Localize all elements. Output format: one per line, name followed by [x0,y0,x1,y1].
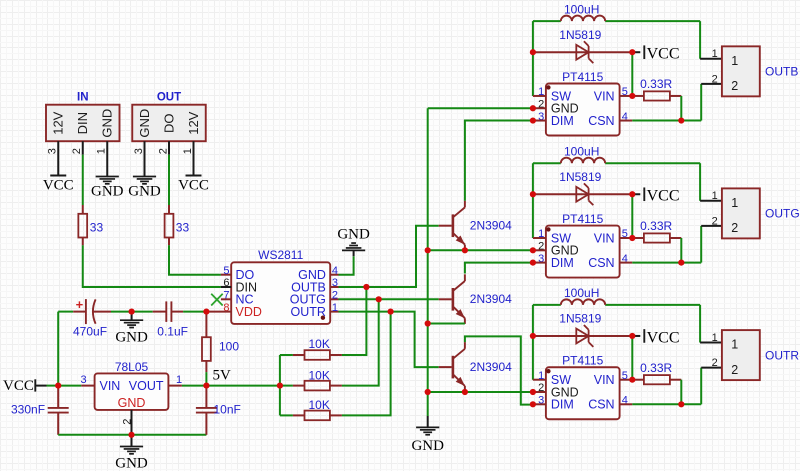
resistor 10K (bottom) [280,398,342,420]
driver U PT4115 (OUTB) [533,70,632,136]
node diode junctions (OUTG) [530,191,636,197]
svg-text:VCC: VCC [647,329,680,346]
svg-text:GND: GND [115,456,148,471]
svg-text:0.33R: 0.33R [640,361,672,375]
resistor 10K (top) [280,337,342,360]
wire diode to VIN (OUTB) [620,52,633,96]
wire 0.33R to CSN (OUTR) [632,380,701,405]
svg-text:7: 7 [223,290,229,302]
wire R33 to WS2811 DIN [83,245,221,287]
wire topwire to conn pin1 (OUTG) [700,163,722,201]
svg-text:1: 1 [96,148,108,154]
wire Q3 collector to PT4115-3 DIM [465,336,533,404]
connector OUTG [712,188,800,238]
svg-text:1: 1 [731,196,738,210]
wire VDD rail right segment [183,311,206,313]
wire CSN to conn pin2 (OUTB) [701,84,722,121]
wire OUT.DO to R 33 [168,155,170,205]
resistor 33 (data in) [78,205,103,245]
transistor Q2 2N3904 [439,274,512,324]
svg-text:10K: 10K [309,368,330,382]
svg-text:6: 6 [223,277,229,289]
resistor 100 [202,312,239,386]
svg-text:2: 2 [332,290,338,302]
svg-text:CSN: CSN [588,398,614,412]
svg-text:10K: 10K [309,398,330,412]
svg-text:DIM: DIM [551,256,574,270]
capacitor 10nF [196,386,241,435]
transistor Q1 2N3904 [439,201,512,251]
wire VDD rail mid segment [111,311,153,313]
svg-text:330nF: 330nF [11,402,45,416]
wire inductor left to SW (OUTG) [533,163,546,238]
node GND/DIM pin dots (OUTB) [530,105,536,124]
wire inductor left to SW (OUTR) [533,305,546,380]
svg-text:1: 1 [731,338,738,352]
resistor 0.33R (OUTR) [632,361,681,385]
VCC power flag (OUTG) [632,187,679,204]
svg-text:PT4115: PT4115 [562,354,603,368]
svg-text:VCC: VCC [3,378,34,394]
svg-text:1: 1 [182,148,194,154]
node GND/DIM pin dots (OUTR) [530,389,536,408]
pin 3 of IN + VCC power flag [43,141,74,193]
node 10K common junction [277,383,283,389]
svg-text:OUTR: OUTR [290,305,325,319]
ground (78L05) [115,435,148,471]
svg-text:0.1uF: 0.1uF [157,325,188,339]
svg-text:1: 1 [538,86,544,98]
resistor 10K (mid) [280,368,342,390]
svg-text:CSN: CSN [588,256,614,270]
node rail/Q3 junctions [425,389,468,395]
VCC net flag (left) [3,378,58,394]
op-amp U1 WS2811 [221,248,339,324]
svg-text:2: 2 [121,419,133,425]
svg-text:VCC: VCC [647,188,680,205]
svg-text:VDD: VDD [236,305,262,319]
svg-text:10nF: 10nF [214,402,241,416]
svg-text:1: 1 [712,332,718,344]
pin 1 of IN + ground [91,141,124,200]
wire 10K bottom to OUTR [342,312,391,416]
node CSN junction (OUTR) [678,401,684,407]
svg-text:GND: GND [411,438,444,454]
svg-text:2N3904: 2N3904 [470,219,512,233]
wire Q2 emitter rail [428,323,465,325]
svg-text:0.33R: 0.33R [640,219,672,233]
svg-text:2: 2 [712,215,718,227]
svg-text:1: 1 [176,374,182,386]
svg-text:VCC: VCC [647,46,680,63]
svg-text:2: 2 [71,148,83,154]
svg-text:GND: GND [128,184,161,200]
svg-text:VIN: VIN [594,89,615,103]
svg-text:5: 5 [622,86,628,98]
svg-text:DIM: DIM [551,114,574,128]
wire diode to VIN (OUTR) [620,336,633,380]
svg-text:100uH: 100uH [564,144,599,158]
svg-text:PT4115: PT4115 [562,212,603,226]
no-connect cross on WS2811 NC pin [211,294,223,306]
wire IN.DIN to R 33 [82,155,84,205]
wire inductor left to SW (OUTB) [533,21,546,96]
regulator U2 78L05 [80,360,182,435]
inductor 100uH (OUTG) [533,144,700,163]
svg-text:2: 2 [157,148,169,154]
node VIN junction (OUTR) [629,377,635,383]
svg-text:0.33R: 0.33R [640,77,672,91]
diode 1N5819 (OUTB) [533,28,632,63]
diode 1N5819 (OUTR) [533,312,632,347]
wire GND rail top to PT4115-1 GND [428,107,533,109]
wire VDD rail left segment [58,311,73,313]
svg-text:WS2811: WS2811 [258,248,303,262]
svg-text:4: 4 [332,265,338,277]
connector OUT (J2) [132,92,206,155]
pin 1 of OUT + VCC power flag [178,141,209,193]
node diode junctions (OUTR) [530,333,636,339]
svg-text:1: 1 [712,48,718,60]
wire topwire to conn pin1 (OUTR) [700,305,722,343]
connector IN (J1) [46,92,120,155]
svg-text:GND: GND [337,226,370,242]
svg-text:1: 1 [332,302,338,314]
svg-text:VCC: VCC [43,178,74,194]
node diode junctions (OUTB) [530,49,636,55]
wire 10K mid to OUTG [342,299,379,385]
node rail/Q1 junctions [425,247,468,253]
node 5V junction [203,383,209,389]
wire Q1 emitter rail [428,249,533,251]
wire 5V rail [206,385,280,387]
svg-text:3: 3 [80,374,86,386]
svg-text:3: 3 [47,148,59,154]
wire IN.DIN stub [82,141,84,155]
svg-text:VOUT: VOUT [129,379,164,393]
ground (mid rail) [115,312,148,346]
wire OUTG net [339,298,439,300]
wire 0.33R to CSN (OUTB) [632,96,701,121]
svg-text:DIN: DIN [75,112,90,134]
wire WS2811 VDD pin [206,311,231,313]
node OUTG junction [376,296,382,302]
node rail/Q2 junction [425,320,431,326]
svg-text:OUTG: OUTG [765,207,800,221]
svg-text:VIN: VIN [594,373,615,387]
transistor Q3 2N3904 [439,342,512,392]
node VIN junction (OUTG) [629,235,635,241]
svg-text:VIN: VIN [100,379,121,393]
node VDD junction [203,309,209,315]
resistor 33 (data out) [165,205,190,245]
capacitor 0.1uF [153,301,188,338]
wire 0.33R to CSN (OUTG) [632,238,701,263]
svg-text:5: 5 [622,228,628,240]
svg-text:VIN: VIN [594,231,615,245]
svg-text:GND: GND [91,184,124,200]
svg-text:1N5819: 1N5819 [559,312,601,326]
resistor 0.33R (OUTB) [632,77,681,100]
wire 10K common vertical [279,355,281,415]
svg-text:78L05: 78L05 [115,360,149,374]
node CSN junction (OUTG) [678,260,684,266]
svg-text:GND: GND [115,330,148,346]
svg-text:100uH: 100uH [564,286,599,300]
svg-text:100uH: 100uH [564,2,599,16]
svg-text:OUTR: OUTR [765,348,799,362]
wire Q3 emitter rail [428,391,533,393]
svg-text:OUT: OUT [157,92,181,104]
VCC power flag (OUTB) [632,45,679,62]
node CSN junction (OUTB) [678,117,684,123]
connector OUTB [712,46,799,96]
svg-text:100: 100 [219,340,239,354]
VCC power flag (OUTR) [632,329,679,346]
capacitor 470uF [73,297,111,339]
svg-text:GND: GND [118,396,146,410]
connector OUTR [712,330,800,380]
svg-text:470uF: 470uF [73,325,107,339]
node OUTB junction [363,284,369,290]
svg-text:DIM: DIM [551,398,574,412]
diode 1N5819 (OUTG) [533,170,632,205]
svg-text:2: 2 [731,221,738,235]
wire 78L05 VOUT to 5V [182,385,207,387]
svg-text:1N5819: 1N5819 [559,28,601,42]
ground (main rail) [411,416,444,454]
svg-text:OUTB: OUTB [765,65,798,79]
svg-text:33: 33 [90,221,104,235]
node GND/DIM pin dots (OUTG) [530,247,536,266]
capacitor 330nF [11,386,69,435]
svg-text:2: 2 [712,73,718,85]
svg-text:1: 1 [538,228,544,240]
svg-text:3: 3 [332,277,338,289]
driver U PT4115 (OUTR) [533,354,632,420]
svg-text:2: 2 [731,79,738,93]
svg-text:3: 3 [133,148,145,154]
svg-text:1: 1 [538,370,544,382]
inductor 100uH (OUTB) [533,2,700,21]
svg-text:IN: IN [77,92,89,104]
wire CSN to conn pin2 (OUTG) [701,226,722,263]
wire OUT.DO stub [168,141,170,155]
svg-text:1: 1 [731,54,738,68]
svg-text:12V: 12V [186,111,201,134]
wire CSN to conn pin2 (OUTR) [701,368,722,405]
driver U PT4115 (OUTG) [533,212,632,278]
svg-text:12V: 12V [51,111,66,134]
wire Q1 collector to PT4115-1 DIM [465,121,533,201]
wire 10K top to OUTB [342,287,367,355]
svg-text:1: 1 [712,190,718,202]
svg-text:33: 33 [176,221,190,235]
svg-text:5V: 5V [213,368,232,384]
svg-text:2: 2 [731,363,738,377]
pin 3 of OUT + ground [128,141,161,200]
svg-text:CSN: CSN [588,114,614,128]
node 78L05 GND junction [128,432,134,438]
node VIN junction (OUTB) [629,93,635,99]
svg-text:2N3904: 2N3904 [470,292,512,306]
svg-text:+: + [76,297,84,312]
inductor 100uH (OUTR) [533,286,700,305]
wire OUTB net [339,226,439,287]
wire R33 to WS2811 DO [169,245,221,274]
node VCC junction [55,383,61,389]
node VDD-rail/GND junction [129,309,135,315]
svg-text:2: 2 [712,357,718,369]
svg-text:GND: GND [100,109,115,138]
ground (WS2811 pin4) [337,226,370,274]
resistor 0.33R (OUTG) [632,219,681,242]
wire Q2 collector to PT4115-2 DIM [465,263,533,274]
svg-text:5: 5 [622,370,628,382]
wire diode to VIN (OUTG) [620,194,633,238]
wire bottom rail [58,434,206,436]
wire left vertical VCC [57,312,59,386]
net label 5V [213,368,232,384]
svg-text:1N5819: 1N5819 [559,170,601,184]
wire OUTR net [339,312,439,368]
svg-text:VCC: VCC [178,178,209,194]
svg-text:GND: GND [137,109,152,138]
wire VCC to 78L05 VIN [58,385,81,387]
svg-text:DO: DO [161,113,176,133]
wire topwire to conn pin1 (OUTB) [700,21,722,59]
wire GND rail vertical [427,108,429,416]
svg-text:10K: 10K [309,337,330,351]
node OUTR junction [388,309,394,315]
svg-text:2N3904: 2N3904 [470,360,512,374]
svg-text:5: 5 [223,265,229,277]
svg-text:PT4115: PT4115 [562,70,603,84]
